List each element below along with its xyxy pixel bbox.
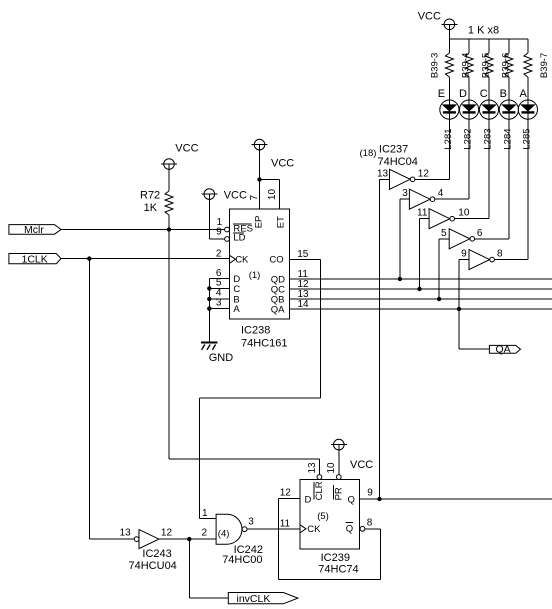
svg-text:D: D (459, 88, 467, 100)
label QA (271, 304, 285, 315)
inverter U5 IC237 (469, 250, 494, 270)
svg-text:ET: ET (276, 216, 287, 228)
pin 9 (216, 226, 222, 237)
label pin 4 (438, 188, 444, 199)
svg-text:74HCU04: 74HCU04 (129, 560, 177, 572)
svg-text:1K: 1K (144, 202, 158, 214)
power VCC V5 (331, 439, 373, 471)
wire (247, 528, 300, 530)
label IC239 (321, 552, 350, 564)
inverter IC243 (134, 530, 159, 549)
svg-text:QA: QA (496, 344, 511, 356)
pin bubble CLR (317, 475, 322, 480)
label QB (271, 294, 285, 305)
svg-text:74HC04: 74HC04 (378, 156, 418, 168)
svg-text:12: 12 (418, 168, 430, 179)
wire (168, 215, 170, 230)
pin 2 (216, 248, 222, 259)
svg-text:VCC: VCC (224, 190, 247, 202)
pin 10 (326, 462, 337, 474)
svg-text:12: 12 (280, 488, 292, 499)
label CLR (314, 481, 325, 500)
svg-text:GND: GND (209, 352, 234, 364)
svg-text:EP: EP (254, 216, 265, 229)
svg-text:14: 14 (298, 299, 310, 310)
svg-text:8: 8 (497, 249, 503, 260)
wire net QD (289, 278, 552, 280)
svg-text:15: 15 (297, 249, 309, 260)
pin 7 (249, 194, 260, 200)
wire net Q (359, 498, 552, 500)
label D (305, 494, 312, 505)
svg-text:VCC: VCC (418, 11, 441, 23)
wire (455, 218, 490, 220)
svg-text:13: 13 (120, 528, 132, 539)
ground GND (201, 343, 233, 365)
svg-text:8: 8 (367, 518, 373, 529)
resistor B39-4 (461, 53, 473, 78)
resistor B39-5 (481, 53, 493, 78)
tag Mclr (9, 224, 61, 236)
wire 1CLK drop (88, 259, 90, 539)
label Qbar (346, 522, 354, 534)
svg-text:B39-3: B39-3 (430, 53, 441, 78)
resistor B39-7 (524, 53, 550, 78)
svg-text:VCC: VCC (350, 459, 373, 471)
label IC237 (379, 144, 408, 156)
clock mark (300, 525, 306, 533)
wire pin7 (259, 150, 261, 209)
pin 13 (120, 528, 132, 539)
wire (419, 219, 421, 289)
svg-text:VCC: VCC (175, 143, 198, 155)
wire D feedback (278, 498, 380, 579)
svg-text:VCC: VCC (271, 158, 294, 170)
wire (208, 279, 210, 343)
svg-text:B39-7: B39-7 (539, 53, 550, 78)
pin bubble RES (225, 227, 230, 232)
wire (435, 198, 469, 200)
svg-text:1CLK: 1CLK (22, 254, 48, 266)
svg-text:10: 10 (458, 208, 470, 219)
wire (527, 39, 529, 53)
svg-text:9: 9 (461, 249, 467, 260)
label pin 5 (441, 228, 447, 239)
svg-text:L283: L283 (483, 128, 494, 149)
label QC (271, 284, 285, 295)
pin 13 (298, 289, 310, 300)
LED L285 (518, 77, 537, 260)
svg-text:L284: L284 (503, 128, 514, 149)
svg-text:74HC00: 74HC00 (222, 554, 262, 566)
junction (187, 537, 191, 541)
LED L283 (479, 77, 498, 219)
wire (415, 178, 450, 180)
svg-text:7: 7 (249, 194, 260, 200)
svg-text:2: 2 (202, 528, 208, 539)
wire CO (200, 259, 321, 518)
svg-text:L282: L282 (463, 128, 474, 149)
inverter U3 IC237 (429, 209, 454, 229)
svg-text:A: A (233, 304, 240, 315)
wire (209, 278, 229, 280)
label 74HC161 (241, 338, 287, 350)
wire inv1 input from Q (379, 179, 381, 499)
svg-text:(5): (5) (317, 511, 329, 522)
label L283 (483, 128, 494, 149)
wire (459, 309, 489, 349)
wire (209, 287, 229, 289)
svg-text:L281: L281 (443, 128, 454, 149)
svg-text:9: 9 (367, 488, 373, 499)
LED L281 (438, 77, 459, 179)
wire (189, 539, 228, 598)
wire (209, 298, 229, 300)
svg-text:9: 9 (216, 226, 222, 237)
label 74HCU04 (129, 560, 177, 572)
svg-text:IC238: IC238 (241, 325, 270, 337)
junction (437, 297, 441, 301)
label 74HC04 (378, 156, 418, 168)
wire (438, 239, 440, 299)
label 74HC00 (222, 554, 262, 566)
wire (475, 238, 509, 240)
svg-text:R72: R72 (140, 190, 160, 202)
label pin 10 (458, 208, 470, 219)
wire (159, 538, 216, 540)
svg-text:IC239: IC239 (321, 552, 350, 564)
wire net QA (289, 308, 552, 310)
svg-text:B39-4: B39-4 (461, 53, 472, 78)
pin 12 (161, 528, 173, 539)
power VCC V2 (161, 143, 199, 170)
wire (494, 259, 528, 261)
label CK (307, 524, 321, 535)
wire (439, 238, 449, 240)
pin 8 (367, 518, 373, 529)
svg-text:A: A (520, 88, 528, 100)
wire (399, 199, 401, 279)
junction (257, 177, 261, 181)
label (5) (317, 511, 329, 522)
label (4) (218, 528, 230, 539)
label L284 (503, 128, 514, 149)
label pin 9 (461, 249, 467, 260)
svg-text:B: B (500, 88, 507, 100)
wire (338, 450, 340, 475)
wire (508, 39, 510, 53)
label IC242 (234, 544, 263, 556)
svg-text:11: 11 (280, 519, 291, 530)
pin 13 (307, 462, 318, 474)
svg-text:CK: CK (307, 524, 321, 535)
pin 15 (297, 249, 309, 260)
label IC243 (142, 548, 171, 560)
wire vcc bus (449, 38, 528, 40)
pin 5 (216, 278, 222, 289)
wire Mclr drop (169, 230, 319, 475)
junction (207, 286, 211, 290)
wire (209, 199, 224, 239)
svg-text:(1): (1) (249, 270, 261, 281)
wire (459, 259, 469, 261)
svg-text:(18): (18) (360, 148, 377, 159)
svg-text:74HC161: 74HC161 (241, 338, 287, 350)
svg-text:10: 10 (267, 189, 278, 201)
wire (380, 178, 390, 180)
label ET (276, 216, 287, 228)
label LD (233, 233, 246, 244)
junction (398, 277, 402, 281)
resistor B39-6 (501, 53, 513, 78)
pin 3 (248, 517, 254, 528)
svg-text:1: 1 (202, 508, 208, 519)
svg-text:IC237: IC237 (379, 144, 408, 156)
junction (417, 287, 421, 291)
svg-text:6: 6 (477, 228, 483, 239)
svg-text:Q: Q (348, 494, 355, 505)
label D (233, 274, 240, 285)
tag invCLK (228, 593, 298, 606)
svg-text:CO: CO (269, 254, 283, 265)
tag 1CLK (9, 254, 61, 266)
inverter U4 IC237 (449, 229, 474, 249)
pin 11 (280, 519, 291, 530)
power VCC V1 (418, 11, 458, 30)
label pin 8 (497, 249, 503, 260)
svg-text:C: C (233, 284, 240, 295)
power VCC V3 (201, 189, 247, 202)
wire (448, 30, 450, 53)
svg-text:E: E (438, 88, 445, 100)
svg-text:CK: CK (235, 254, 249, 265)
pin bubble (242, 527, 247, 532)
pin 12 (280, 488, 292, 499)
label pin 6 (477, 228, 483, 239)
svg-text:B39-5: B39-5 (481, 53, 492, 78)
pin 10 (267, 189, 278, 201)
label L285 (522, 128, 533, 149)
pin bubble PR (336, 475, 341, 480)
resistor R72 (140, 169, 173, 215)
pin bubble Qbar (360, 526, 365, 531)
label (18) (360, 148, 377, 159)
IC242 NAND body (216, 514, 242, 544)
junction (207, 306, 211, 310)
wire (458, 260, 460, 309)
clock mark CK (230, 255, 236, 263)
pin 9 (367, 488, 373, 499)
label pin 3 (402, 188, 408, 199)
svg-text:4: 4 (438, 188, 444, 199)
wire (400, 198, 410, 200)
pin 4 (216, 288, 222, 299)
svg-text:QA: QA (271, 304, 285, 315)
label C (233, 284, 240, 295)
svg-text:10: 10 (326, 462, 337, 474)
svg-text:74HC74: 74HC74 (318, 564, 358, 576)
wire (209, 308, 229, 310)
pin 6 (216, 268, 222, 279)
label B (233, 295, 239, 306)
label pin 11 (417, 208, 428, 219)
pin bubble LD (225, 237, 230, 242)
label EP (254, 216, 265, 229)
junction (167, 227, 171, 231)
svg-text:12: 12 (161, 528, 173, 539)
label Q (348, 494, 355, 505)
pin 1 (217, 217, 223, 228)
label 1Kx8 (468, 25, 499, 37)
label PR (334, 485, 345, 501)
svg-text:1 K x8: 1 K x8 (468, 25, 499, 37)
inverter U2 IC237 (409, 189, 434, 209)
svg-text:3: 3 (402, 188, 408, 199)
svg-text:C: C (480, 88, 488, 100)
resistor B39-3 (430, 53, 454, 78)
svg-text:D: D (305, 494, 312, 505)
wire (468, 39, 470, 53)
svg-text:CLR: CLR (314, 481, 325, 500)
wire (89, 538, 134, 540)
pin 2 (202, 528, 208, 539)
wire net QB (289, 298, 552, 300)
junction (457, 307, 461, 311)
junction (207, 297, 211, 301)
LED L284 (499, 77, 518, 239)
pin 12 (298, 279, 310, 290)
pin 14 (298, 299, 310, 310)
svg-text:Q: Q (346, 523, 353, 534)
svg-text:3: 3 (248, 517, 254, 528)
label L281 (443, 128, 454, 149)
svg-text:5: 5 (441, 228, 447, 239)
pin 1 (202, 508, 208, 519)
IC238 74HC161 body (230, 209, 290, 319)
label CK (235, 254, 249, 265)
label RES (233, 223, 253, 234)
svg-text:2: 2 (216, 248, 222, 259)
svg-text:13: 13 (377, 168, 389, 179)
label 74HC74 (318, 564, 358, 576)
wire net QC (289, 288, 552, 290)
wire (488, 39, 490, 53)
junction (377, 497, 381, 501)
label L282 (463, 128, 474, 149)
wire (420, 218, 430, 220)
inverter U1 IC237 (390, 169, 415, 189)
svg-text:invCLK: invCLK (237, 593, 271, 605)
svg-text:Mclr: Mclr (24, 224, 44, 236)
svg-text:IC243: IC243 (142, 548, 171, 560)
label IC238 (241, 325, 270, 337)
label (1) (249, 270, 261, 281)
svg-text:(4): (4) (218, 528, 230, 539)
svg-text:PR: PR (334, 487, 345, 500)
tag QA (489, 344, 520, 356)
label pin 12 (418, 168, 430, 179)
pin 3 (216, 297, 222, 308)
svg-text:LD: LD (233, 233, 245, 244)
svg-text:11: 11 (417, 208, 428, 219)
wire Mclr (61, 229, 225, 231)
label pin 13 (377, 168, 389, 179)
wire 1CLK (61, 258, 230, 260)
svg-text:B39-6: B39-6 (501, 53, 512, 78)
svg-text:L285: L285 (522, 128, 533, 149)
label A (233, 304, 240, 315)
label QD (271, 274, 285, 285)
svg-text:13: 13 (307, 462, 318, 474)
power VCC V4 (252, 139, 295, 169)
LED L282 (459, 77, 479, 199)
wire pin10 (260, 180, 280, 209)
junction (87, 256, 91, 260)
label CO (269, 254, 283, 265)
IC239 74HC74 body (300, 480, 359, 549)
pin 11 (298, 269, 309, 280)
